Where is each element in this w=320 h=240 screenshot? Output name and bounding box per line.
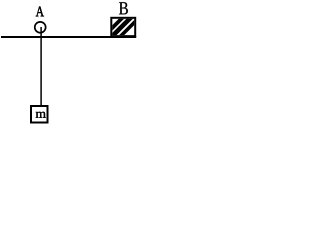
ceiling beam line <box>1 36 136 38</box>
mass box m <box>31 106 48 123</box>
label m <box>36 112 46 118</box>
label B <box>119 2 128 14</box>
pulley circle at A <box>35 22 46 33</box>
block B hatched <box>100 14 143 40</box>
string from pulley axle down to mass <box>40 27 42 107</box>
label A <box>36 6 44 16</box>
